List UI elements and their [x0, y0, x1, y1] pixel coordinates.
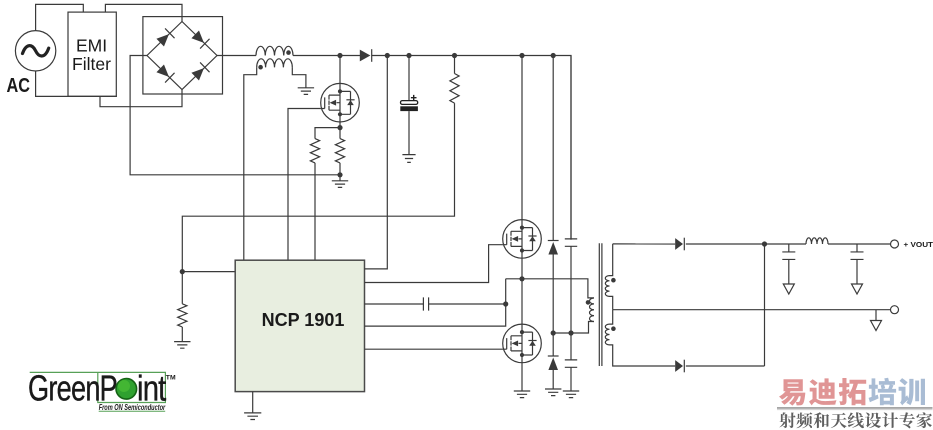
watermark char 培 [869, 378, 897, 406]
node rail Vcc tap [385, 53, 390, 58]
node Q1 source [337, 125, 342, 130]
bridge diode D1 upper-left [155, 28, 174, 47]
wire CO2 to ground [856, 259, 858, 284]
wire node to CO1 [788, 244, 790, 252]
wire source node to R2 [339, 128, 341, 139]
wire midpoint to Q3 drain [521, 279, 523, 324]
inductor L1 PFC boost winding [256, 46, 293, 55]
node rail R3 [452, 53, 457, 58]
transistor Q1 PFC MOSFET [321, 83, 360, 122]
resistor R1 sense divider [310, 139, 319, 163]
wire NCP drive2 to Q3 gate [365, 348, 503, 350]
node secondary lower phase dot [611, 326, 616, 331]
wire secondary center tap upper [610, 296, 613, 309]
wire secondary bottom lead [610, 345, 676, 366]
svg-text:NCP 1901: NCP 1901 [262, 310, 345, 330]
AC source V1 [15, 31, 55, 71]
terminal +VOUT [891, 240, 899, 248]
capacitor C4 divider lower [565, 360, 577, 367]
watermark char 家 [916, 412, 932, 428]
inductor L1 aux winding [257, 59, 293, 68]
resistor R4 divider lower [178, 304, 187, 327]
bridge diode D4 lower-right [190, 62, 209, 81]
wire rail to Q2 drain [521, 56, 523, 220]
svg-text:EMI: EMI [76, 36, 107, 56]
wire source node to R1 [315, 128, 340, 139]
capacitor C5 output filter 1 [782, 252, 795, 260]
node rail drain Q1 [337, 53, 342, 58]
wire CO1 to ground [788, 259, 790, 284]
wire EMI out top to bridge [105, 4, 182, 21]
watermark char 易 [779, 379, 805, 405]
EMI filter block [68, 12, 116, 96]
watermark char 拓 [839, 378, 866, 405]
diode D7 clamp lower [548, 355, 559, 357]
watermark separator line [777, 407, 933, 409]
diode D9 output bottom [675, 360, 683, 372]
node ground bus junction [337, 172, 342, 177]
bridge diamond [147, 22, 217, 90]
wire center tap line [613, 309, 891, 311]
wire rail diode leg upper [552, 56, 554, 241]
wire C1 to ground [408, 111, 410, 155]
wire diode leg middle [552, 255, 554, 357]
capacitor C2 coupling [423, 297, 428, 310]
transistor Q2 half-bridge high side [503, 220, 542, 259]
ground C1 [402, 155, 415, 163]
wire EMI out bottom to bridge [100, 90, 182, 107]
transistor Q3 half-bridge low side [503, 324, 542, 363]
wire aux right to ground [292, 67, 306, 87]
wire secondary top to D8 [613, 243, 676, 245]
watermark char 设 [865, 413, 881, 429]
node diode leg tap [551, 330, 556, 335]
wire D9 to riser [686, 365, 765, 367]
svg-text:AC: AC [7, 75, 31, 97]
wire primary return [553, 322, 594, 334]
node rail diode leg [551, 53, 556, 58]
ground Q3 source [514, 391, 530, 398]
ground aux winding [298, 88, 314, 95]
ground NCP [244, 413, 261, 420]
ground output cap 1 [783, 284, 794, 294]
wire ground stub [339, 175, 341, 181]
wire C2 to half-bridge node [429, 303, 506, 305]
wire R2 to ground node [339, 163, 341, 175]
wire FB node to NCP left pin [182, 271, 235, 273]
wire L2 to VOUT [828, 243, 891, 245]
wire R3 to NCP FB pin [182, 103, 454, 272]
wire aux left to NCP pin [244, 67, 257, 260]
node rail bulk cap [406, 53, 411, 58]
wire midpoint to sense branch [506, 278, 522, 280]
bridge diode D2 upper-right [190, 29, 209, 48]
node secondary upper phase dot [611, 278, 616, 283]
ground R4 [174, 342, 190, 349]
watermark char 计 [882, 412, 898, 428]
ground output return [871, 321, 882, 331]
node rail drain Q2 [519, 53, 524, 58]
wire cap leg middle [570, 246, 572, 360]
node half-bridge midpoint [519, 276, 524, 281]
transformer T1 secondary upper [605, 276, 609, 297]
wire midpoint to primary [522, 279, 594, 298]
wire rail L1 to D5 [293, 55, 360, 57]
wire node to CO2 [856, 244, 858, 252]
watermark char 频 [797, 412, 813, 428]
wire cap leg lower [570, 367, 572, 391]
wire rail D5 to corner [372, 56, 571, 240]
ground diode leg [545, 389, 561, 396]
capacitor C3 divider upper [565, 239, 577, 246]
node L1 phase dot [286, 50, 291, 55]
op-amp U1 NCP 1901 controller [235, 260, 364, 391]
transformer T1 secondary lower [605, 324, 609, 345]
wire NCP ground pin [252, 392, 254, 413]
node FB divider [180, 269, 185, 274]
wire Q1 gate from NCP [288, 109, 321, 261]
wire diode leg lower [552, 370, 554, 389]
logo GreenPoint ball [116, 379, 137, 400]
wire R4 to ground [181, 327, 183, 342]
wire FB node to R4 [181, 272, 183, 304]
transformer T1 core [599, 243, 602, 366]
watermark char 迪 [809, 378, 837, 405]
node cap leg tap [568, 330, 573, 335]
watermark char 和 [814, 412, 830, 428]
wire NCP sense to midpoint [365, 279, 506, 326]
wire rail bridge to L1 [217, 55, 256, 57]
wire rail to Q1 drain [339, 56, 341, 85]
diode D8 output top [675, 238, 683, 250]
resistor R2 source to ground [335, 139, 344, 163]
node C2 bridge tap [503, 301, 508, 306]
watermark char 线 [848, 412, 864, 428]
svg-text:Filter: Filter [72, 54, 111, 74]
wire D8 to output node [686, 243, 806, 245]
watermark char 训 [899, 378, 925, 405]
wire bridge negative to ground bus [130, 56, 340, 175]
wire return ground stub [875, 310, 877, 321]
wire Q3 source to ground [521, 363, 523, 391]
terminal output return [891, 306, 899, 314]
bridge rectifier box BR1 [143, 17, 223, 94]
capacitor C1 bulk electrolytic [411, 95, 417, 101]
watermark char 专 [899, 412, 915, 428]
svg-text:+ VOUT: + VOUT [904, 240, 933, 249]
resistor R3 feedback [450, 74, 459, 104]
wire NCP drive1 to Q2 gate [365, 245, 503, 283]
wire secondary center tap lower [610, 310, 613, 324]
logo GreenPoint frame [30, 372, 166, 402]
wire AC bottom lead [36, 71, 117, 96]
watermark char 射 [779, 412, 795, 428]
ground cap leg [563, 391, 579, 398]
wire rail to C1 [408, 56, 410, 101]
wire bottom rect to output [764, 244, 766, 366]
ground main return [332, 181, 348, 188]
bridge diode D3 lower-left [155, 63, 174, 82]
node primary phase dot [586, 300, 591, 305]
wire secondary top lead [610, 244, 613, 276]
watermark char 天 [831, 413, 847, 428]
diode D5 boost [360, 50, 371, 62]
wire Q1 source to node [339, 122, 341, 128]
svg-text:From ON Semiconductor: From ON Semiconductor [99, 403, 166, 412]
wire rail to R3 [454, 56, 456, 74]
wire AC top lead [36, 4, 84, 30]
wire Q2 source to midpoint [521, 258, 523, 279]
transformer T1 primary winding [590, 298, 595, 322]
diode D6 clamp upper [548, 240, 559, 242]
wire NCP Vcc pin to rail [365, 56, 388, 269]
inductor L2 output filter [806, 238, 828, 244]
ground output cap 2 [852, 284, 863, 294]
wire NCP osc pin to C2 [365, 303, 424, 305]
wire R1 to NCP top pin [314, 163, 316, 260]
svg-text:TM: TM [166, 375, 176, 382]
capacitor C6 output filter 2 [851, 252, 864, 260]
node aux phase dot [258, 65, 263, 70]
node output junction [762, 241, 767, 246]
wire rail cap leg upper [570, 56, 572, 239]
